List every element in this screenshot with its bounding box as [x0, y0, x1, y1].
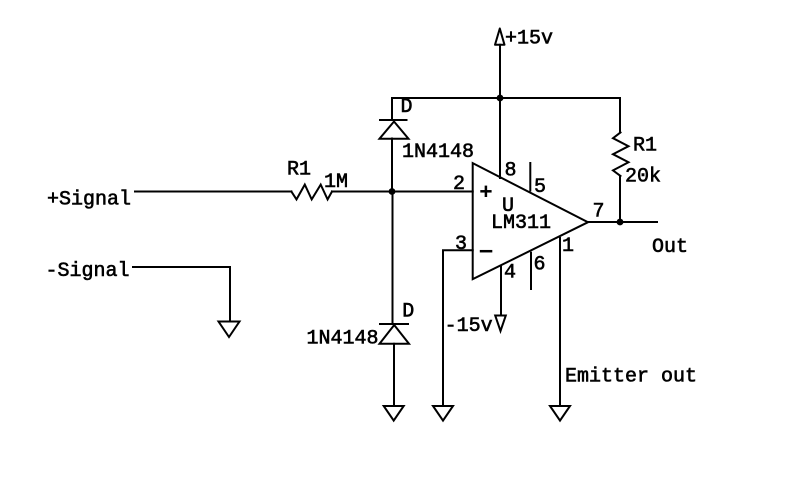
ground (bottom diode) [384, 406, 404, 421]
svg-text:6: 6 [534, 254, 546, 277]
resistor R1 20k [613, 132, 629, 176]
pin 6 stub [530, 253, 532, 289]
wire pin 3 [443, 250, 473, 405]
svg-text:LM311: LM311 [491, 212, 551, 235]
svg-text:8: 8 [505, 160, 517, 183]
svg-text:+Signal: +Signal [47, 189, 131, 212]
diode D 1N4148 top [380, 120, 409, 139]
wire pin 4 [500, 266, 502, 316]
svg-text:D: D [401, 96, 413, 119]
plus symbol inside op-amp [480, 186, 491, 197]
svg-text:5: 5 [534, 176, 546, 199]
wire +Signal input [135, 191, 291, 193]
ground (pin 1) [550, 406, 570, 421]
+15V power arrow [495, 29, 505, 45]
minus symbol inside op-amp [480, 250, 493, 253]
ground (-Signal) [219, 322, 240, 338]
wire -Signal [133, 267, 230, 322]
wire top diode to rail [391, 98, 393, 120]
junction node (top rail) [497, 95, 504, 102]
svg-text:1N4148: 1N4148 [307, 328, 379, 351]
svg-text:1N4148: 1N4148 [402, 141, 474, 164]
svg-text:-Signal: -Signal [46, 260, 130, 283]
svg-text:Out: Out [652, 236, 688, 259]
svg-text:2: 2 [453, 173, 465, 196]
wire resistor to pin 2 [332, 191, 473, 193]
wire output [588, 221, 657, 223]
wire +15v to top rail [499, 45, 501, 98]
ground (pin 3) [433, 406, 453, 421]
resistor R1 1M [291, 185, 332, 200]
junction node (output) [617, 219, 624, 226]
-15V power arrow [495, 316, 506, 332]
wire input node to bottom diode [392, 192, 394, 325]
wire top rail [392, 97, 620, 99]
svg-text:R1: R1 [633, 135, 657, 158]
svg-text:1: 1 [562, 235, 574, 258]
svg-text:+15v: +15v [505, 28, 553, 51]
wire right vertical to resistor [619, 98, 621, 132]
op-amp U LM311 [473, 163, 588, 279]
svg-text:1M: 1M [324, 171, 348, 194]
wire pin 1 to ground [559, 238, 561, 406]
svg-text:20k: 20k [625, 166, 661, 189]
wire pin 8 to rail [499, 98, 501, 178]
svg-text:Emitter out: Emitter out [565, 366, 697, 389]
pin 5 stub [529, 163, 531, 191]
svg-text:4: 4 [504, 262, 516, 285]
svg-text:D: D [402, 301, 414, 324]
svg-text:R1: R1 [287, 159, 311, 182]
svg-text:7: 7 [593, 201, 605, 224]
wire bottom diode to ground [393, 344, 395, 406]
diode D 1N4148 bottom [380, 324, 410, 344]
junction node (input) [389, 188, 396, 195]
wire diode to input node [391, 139, 393, 192]
svg-text:3: 3 [455, 233, 467, 256]
svg-text:-15v: -15v [445, 315, 493, 338]
wire resistor to output node [619, 176, 621, 222]
